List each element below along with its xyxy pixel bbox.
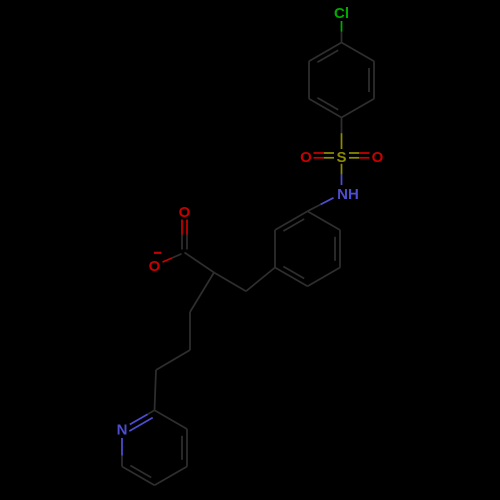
double bond S=O left <box>314 152 324 154</box>
bond chain v3-v2 <box>189 312 191 350</box>
bond Cl-C1 (chlorophenyl) <box>341 21 343 32</box>
bond chain v2-v1 <box>156 350 190 370</box>
svg-text:Cl: Cl <box>334 5 349 22</box>
bond ring2-CH2 <box>246 268 275 292</box>
bond alpha-CH2 (chain v3) <box>190 273 214 313</box>
bond CH2-CH alpha <box>214 273 246 292</box>
benzene ring 1 (4-chlorophenyl) <box>342 43 375 62</box>
svg-text:NH: NH <box>337 186 359 203</box>
double bond S=O right <box>349 152 359 154</box>
bond S-N <box>341 164 343 175</box>
bond N-C1(ring2) <box>321 198 334 205</box>
double bond C=O (carboxylate) <box>181 220 183 235</box>
bond CH alpha - carboxyl C <box>185 253 215 273</box>
benzene ring 2 (central phenylene) <box>308 211 341 230</box>
svg-text:N: N <box>117 422 128 439</box>
pyridine ring <box>130 414 148 424</box>
bond chain v1-C2(pyridine) <box>155 370 157 410</box>
bond C-O minus <box>172 254 182 258</box>
bond C4(ring1)-S <box>341 118 343 134</box>
svg-text:O: O <box>300 149 312 166</box>
svg-text:O: O <box>179 204 191 221</box>
svg-text:O: O <box>149 258 161 275</box>
svg-text:S: S <box>336 149 346 166</box>
svg-text:O: O <box>372 149 384 166</box>
